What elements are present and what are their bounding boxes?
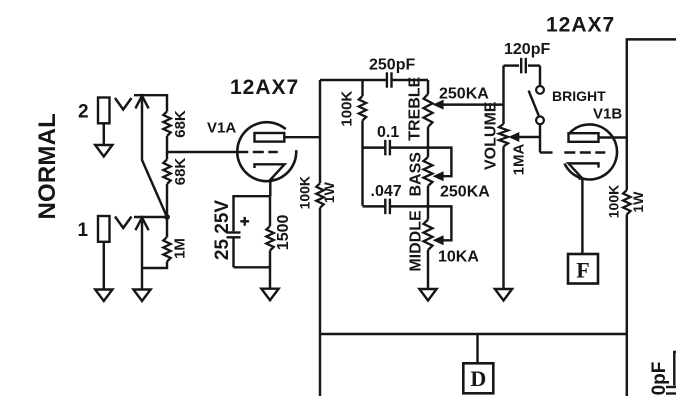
- svg-text:VOLUME: VOLUME: [483, 101, 500, 170]
- svg-text:68K: 68K: [172, 110, 189, 138]
- svg-text:100K: 100K: [605, 185, 621, 218]
- svg-text:1500: 1500: [275, 215, 292, 251]
- svg-text:250pF: 250pF: [369, 57, 415, 74]
- svg-text:D: D: [470, 366, 486, 391]
- svg-text:68K: 68K: [172, 158, 189, 186]
- svg-text:BASS: BASS: [408, 152, 425, 197]
- svg-text:10pF: 10pF: [649, 362, 670, 396]
- svg-text:F: F: [576, 258, 589, 283]
- svg-text:NORMAL: NORMAL: [34, 113, 61, 220]
- svg-text:BRIGHT: BRIGHT: [552, 88, 606, 104]
- svg-text:12AX7: 12AX7: [546, 14, 615, 37]
- svg-text:250KA: 250KA: [439, 86, 489, 103]
- svg-text:V1A: V1A: [207, 120, 236, 137]
- svg-text:1W: 1W: [321, 181, 337, 203]
- svg-text:120pF: 120pF: [504, 41, 550, 58]
- svg-text:100K: 100K: [296, 176, 312, 209]
- svg-text:.047: .047: [371, 183, 402, 200]
- svg-text:0.1: 0.1: [377, 124, 399, 141]
- svg-text:2: 2: [78, 102, 89, 123]
- svg-text:TREBLE: TREBLE: [406, 76, 423, 140]
- svg-text:100K: 100K: [339, 91, 356, 127]
- svg-text:10KA: 10KA: [438, 249, 479, 266]
- svg-text:1W: 1W: [630, 191, 646, 213]
- svg-text:MIDDLE: MIDDLE: [408, 210, 425, 272]
- svg-text:12AX7: 12AX7: [230, 76, 299, 99]
- svg-text:1M: 1M: [172, 238, 189, 259]
- svg-text:250KA: 250KA: [440, 184, 490, 201]
- svg-text:1: 1: [78, 220, 89, 241]
- svg-text:V1B: V1B: [593, 106, 622, 123]
- svg-text:1MA: 1MA: [511, 143, 528, 175]
- svg-text:25 25V: 25 25V: [212, 200, 233, 261]
